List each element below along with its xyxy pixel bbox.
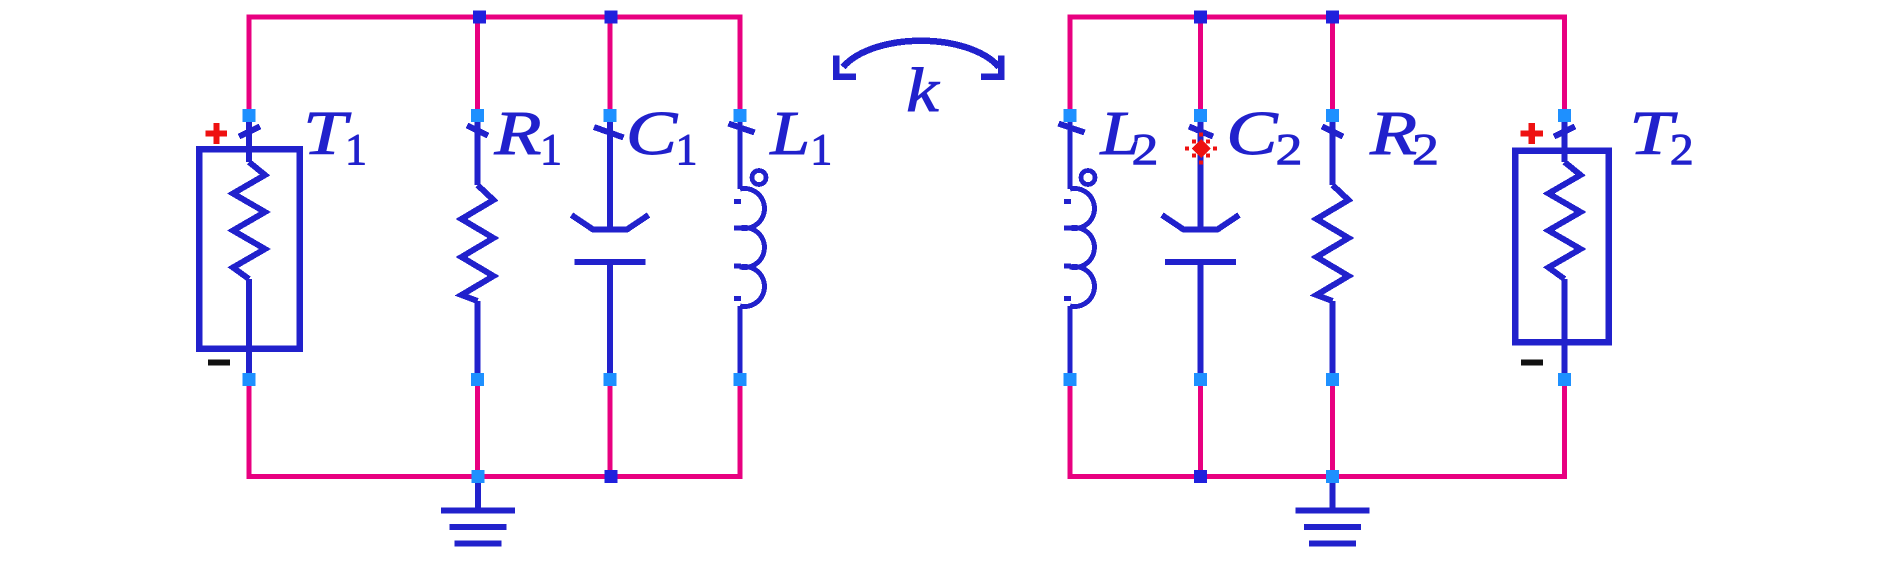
- svg-text:1: 1: [676, 125, 698, 174]
- pin tick L1: [729, 124, 755, 133]
- source T1: [199, 122, 300, 377]
- node L2 bottom: [1064, 373, 1077, 386]
- capacitor C1: [572, 122, 649, 377]
- capacitor C2: [1162, 122, 1239, 377]
- ground right: [1296, 483, 1370, 544]
- svg-text:2: 2: [1132, 125, 1159, 174]
- arrowhead left: [836, 56, 856, 77]
- node T2 bottom: [1558, 373, 1571, 386]
- svg-text:R: R: [493, 100, 541, 168]
- pin tick C2: [1189, 127, 1213, 137]
- pin tick T1: [239, 127, 260, 137]
- node junction top R1: [473, 11, 486, 24]
- node junction bottom ground left: [472, 470, 485, 483]
- inductor L1: [734, 122, 766, 377]
- svg-text:C: C: [1226, 100, 1278, 168]
- wire C2 column magenta: [1198, 17, 1203, 112]
- node C2 top: [1194, 109, 1207, 122]
- inductor L2: [1064, 122, 1095, 377]
- svg-text:2: 2: [1412, 125, 1439, 174]
- pin tick T2: [1554, 127, 1575, 137]
- pin tick R2: [1322, 127, 1343, 137]
- pin tick L2: [1059, 124, 1085, 133]
- minus T2: [1521, 360, 1543, 366]
- coupling arc k: [843, 41, 999, 67]
- node R1 top: [471, 109, 484, 122]
- node R1 bottom: [471, 373, 484, 386]
- wire R1 column magenta: [475, 17, 480, 112]
- svg-text:1: 1: [810, 125, 832, 174]
- resistor R1: [462, 122, 494, 377]
- ground left: [441, 483, 515, 544]
- node T1 top: [243, 109, 256, 122]
- wire R2 column magenta: [1330, 17, 1335, 112]
- node L2 top: [1064, 109, 1077, 122]
- node junction top C2: [1194, 11, 1207, 24]
- node C2 bottom: [1194, 373, 1207, 386]
- wire top rail right: [1070, 17, 1565, 112]
- wire bottom rail left: [249, 382, 740, 477]
- svg-text:1: 1: [540, 125, 562, 174]
- plus T2: [1521, 123, 1544, 144]
- node T2 top: [1558, 109, 1571, 122]
- minus T1: [208, 360, 230, 366]
- wire C1 column magenta: [608, 17, 613, 112]
- node junction bottom ground right: [1326, 470, 1339, 483]
- resistor R2: [1317, 122, 1349, 377]
- svg-text:1: 1: [345, 125, 367, 174]
- svg-text:2: 2: [1670, 125, 1694, 174]
- node C1 top: [604, 109, 617, 122]
- arrowhead right: [981, 56, 1001, 77]
- current marker diamond C2: [1185, 133, 1217, 165]
- node R2 bottom: [1326, 373, 1339, 386]
- svg-text:R: R: [1369, 100, 1417, 168]
- wire bottom rail right: [1070, 382, 1565, 477]
- pin tick C1: [594, 127, 624, 138]
- plus T1: [206, 123, 228, 144]
- pin tick R1: [467, 126, 488, 136]
- svg-text:L: L: [769, 100, 810, 168]
- wire top rail left: [249, 17, 740, 112]
- node R2 top: [1326, 109, 1339, 122]
- svg-text:k: k: [906, 57, 940, 125]
- node junction top R2: [1326, 11, 1339, 24]
- node junction bottom C2: [1194, 470, 1207, 483]
- node T1 bottom: [243, 373, 256, 386]
- svg-text:C: C: [626, 100, 678, 168]
- node L1 bottom: [734, 373, 747, 386]
- node L1 top: [734, 109, 747, 122]
- node C1 bottom: [604, 373, 617, 386]
- node junction bottom C1: [605, 470, 618, 483]
- source T2: [1515, 122, 1609, 377]
- svg-text:2: 2: [1276, 125, 1303, 174]
- node junction top C1: [605, 11, 618, 24]
